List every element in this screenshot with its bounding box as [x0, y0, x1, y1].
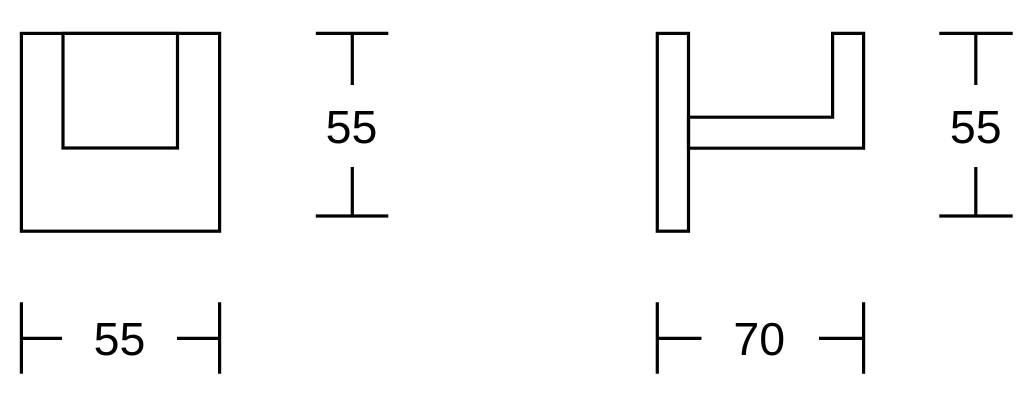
left height dimension bottom tick — [316, 214, 389, 217]
right height dimension upper leader — [974, 33, 977, 85]
side view hook arm and upturned end — [689, 33, 864, 148]
bottom right width dimension right leader — [819, 337, 864, 340]
bottom right width dimension right tick — [862, 302, 865, 374]
right height dimension top tick — [939, 32, 1012, 35]
bottom right width dimension left leader — [657, 337, 701, 340]
front view outer square — [21, 33, 219, 231]
front view inner recess rectangle — [63, 33, 178, 148]
right height dimension lower leader — [974, 167, 977, 216]
bottom left width dimension right tick — [218, 302, 221, 374]
svg-text:55: 55 — [950, 101, 1002, 153]
bottom left width dimension left tick — [20, 302, 23, 374]
side view wall plate bar — [657, 33, 688, 231]
svg-text:55: 55 — [94, 313, 146, 365]
right height dimension bottom tick — [939, 214, 1012, 217]
left height dimension upper leader — [351, 33, 354, 85]
bottom right width dimension left tick — [656, 302, 659, 374]
bottom left width dimension right leader — [177, 337, 220, 340]
svg-text:70: 70 — [733, 313, 785, 365]
bottom left width dimension left leader — [21, 337, 62, 340]
left height dimension lower leader — [351, 167, 354, 216]
svg-text:55: 55 — [326, 101, 378, 153]
left height dimension top tick — [316, 32, 389, 35]
